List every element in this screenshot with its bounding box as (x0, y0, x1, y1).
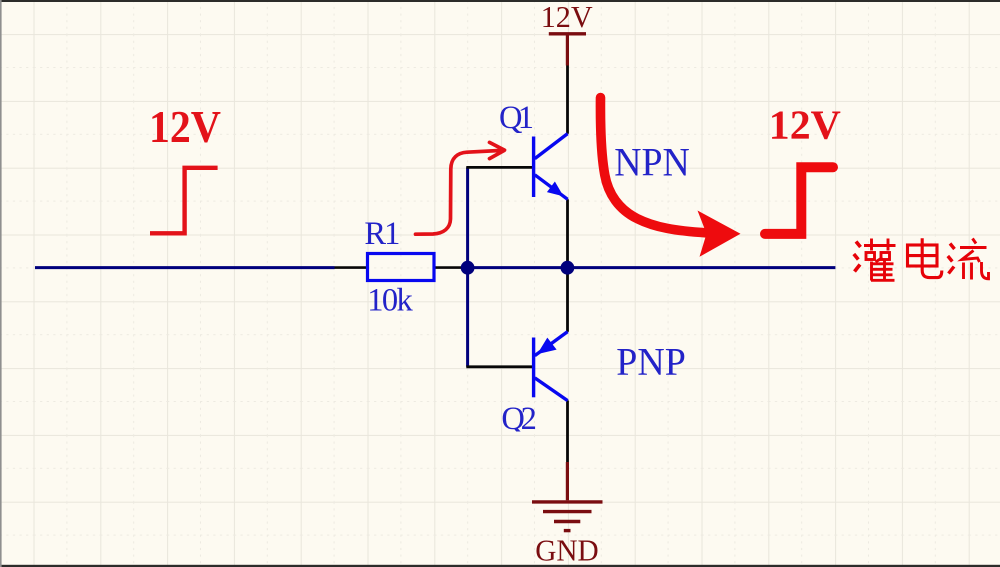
svg-text:12V: 12V (769, 101, 841, 147)
svg-text:12V: 12V (541, 0, 594, 34)
svg-text:GND: GND (535, 532, 599, 567)
svg-text:10k: 10k (367, 283, 413, 319)
svg-text:R1: R1 (364, 216, 400, 252)
svg-text:12V: 12V (149, 101, 221, 152)
svg-text:Q1: Q1 (499, 100, 534, 136)
svg-text:PNP: PNP (616, 340, 686, 383)
svg-text:NPN: NPN (614, 139, 690, 184)
